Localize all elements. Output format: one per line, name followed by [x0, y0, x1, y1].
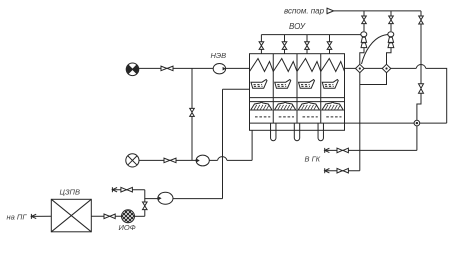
pipe: tank to arrow	[31, 215, 51, 217]
mixing junction symbol	[414, 120, 420, 126]
stage 1 vapour zigzag	[250, 59, 274, 72]
water-seal U-tube 1	[271, 123, 276, 141]
impulse curve from orifice D1 to CV2	[362, 35, 388, 65]
outflow arrow upper GK	[325, 148, 330, 153]
pipe: drop to control valve 1	[363, 11, 365, 16]
valve on make-up line	[164, 158, 176, 163]
pipe: VOU steam manifold	[261, 34, 360, 36]
stage 4 level dashes	[326, 116, 341, 118]
pipe: junction down to upper GK line	[416, 126, 418, 150]
valve on lower GK line	[337, 168, 348, 173]
pipe: D2 branch to D1 downcomer	[360, 73, 387, 85]
pump НЭВ	[213, 63, 226, 73]
valve on drop 1	[362, 16, 367, 24]
control valve CV2	[387, 32, 394, 65]
ion-exchange filter ИОФ	[118, 208, 138, 228]
pump P2	[196, 155, 209, 166]
stage 2 demister canopy	[274, 102, 295, 110]
svg-text:НЭВ: НЭВ	[211, 51, 227, 60]
crossing hop over distillate riser	[218, 157, 228, 161]
outflow arrow lower GK	[325, 168, 330, 173]
inflow arrow line to P3 suction	[112, 187, 144, 198]
pipe: D1 downcomer to lower GK line	[359, 73, 361, 171]
source flag вспом. пар	[327, 8, 334, 15]
pipe: tank to IOF filter	[91, 215, 121, 217]
stage 1 tray	[251, 80, 267, 89]
water-seal U-tube 2	[294, 123, 299, 141]
valve on blowdown branch	[419, 16, 424, 24]
pipe: riser from junction down	[191, 68, 193, 160]
stage 1 demister canopy	[251, 102, 272, 110]
svg-text:ЦЗПВ: ЦЗПВ	[60, 187, 81, 196]
valve on P3 suction	[143, 202, 148, 210]
control valve CV1	[360, 32, 367, 65]
stage 3 vapour zigzag	[297, 59, 321, 72]
svg-text:на ПГ: на ПГ	[7, 212, 28, 221]
pipe: make-up line to pump 2	[139, 159, 196, 161]
stage 4 demister canopy	[322, 102, 343, 110]
stage 3 demister canopy	[298, 102, 319, 110]
check valve	[419, 84, 424, 93]
svg-text:В ГК: В ГК	[305, 155, 321, 164]
pipe: bottom header of vessel to right riser	[345, 122, 447, 124]
manifold drop 3	[305, 35, 310, 54]
evaporator vessel VOU outline	[250, 54, 345, 131]
stage 2 level dashes	[279, 116, 294, 118]
stage 1 level dashes	[255, 116, 270, 118]
pipe: P3 discharge	[173, 198, 223, 200]
pipe: last-stage vapour line to right header	[345, 68, 447, 123]
pipe: feed line to NEV pump	[139, 67, 213, 69]
valve on upper GK line	[337, 148, 348, 153]
stage 4 tray	[322, 80, 338, 89]
svg-text:ВОУ: ВОУ	[289, 22, 306, 31]
pump P3	[158, 192, 173, 204]
manifold drop 2	[282, 35, 287, 54]
orifice D2	[382, 64, 391, 72]
valve on tank outlet	[104, 214, 115, 219]
feed source symbol (quartered circle)	[126, 63, 139, 76]
vessel internal dividers	[273, 54, 321, 123]
pipe: IOF to riser corner	[135, 215, 145, 217]
svg-text:ИОФ: ИОФ	[119, 223, 136, 232]
pipe: upper line to main condenser	[325, 149, 417, 151]
pipe: NEV pump to vessel stage 1	[226, 67, 250, 69]
valve on feed line	[161, 66, 173, 71]
pipe: P2 discharge into vessel bottom	[209, 130, 252, 160]
orifice D1	[356, 64, 365, 72]
make-up source symbol (crossed circle)	[126, 154, 139, 167]
water-seal U-tube 3	[318, 123, 323, 141]
svg-text:вспом. пар: вспом. пар	[284, 7, 325, 16]
vessel internal horizontal lines	[250, 98, 345, 124]
valve on drop 2	[389, 16, 394, 24]
feedwater storage tank ЦЗПВ	[51, 199, 91, 232]
pipe: aux steam header	[334, 10, 421, 12]
stage 2 tray	[275, 80, 291, 89]
valve on riser	[190, 108, 195, 116]
pipe: drop to control valve 2	[390, 11, 392, 16]
pipe: distillate riser from pump 3 to vessel	[223, 89, 250, 198]
valve on inflow line	[121, 187, 132, 192]
pipe: P3 suction from IOF	[145, 199, 158, 217]
stage 3 tray	[299, 80, 315, 89]
pipe: lower line to main condenser	[325, 170, 360, 172]
stage 4 vapour zigzag	[321, 59, 345, 72]
crossing hop over blowdown line	[416, 65, 426, 69]
stage 2 vapour zigzag	[273, 59, 297, 72]
stage 3 level dashes	[303, 116, 318, 118]
manifold drop 1	[259, 35, 264, 54]
manifold drop 4	[327, 35, 332, 54]
outflow arrow to steam generator	[31, 214, 36, 219]
pipe: aux steam blowdown branch	[420, 11, 422, 16]
